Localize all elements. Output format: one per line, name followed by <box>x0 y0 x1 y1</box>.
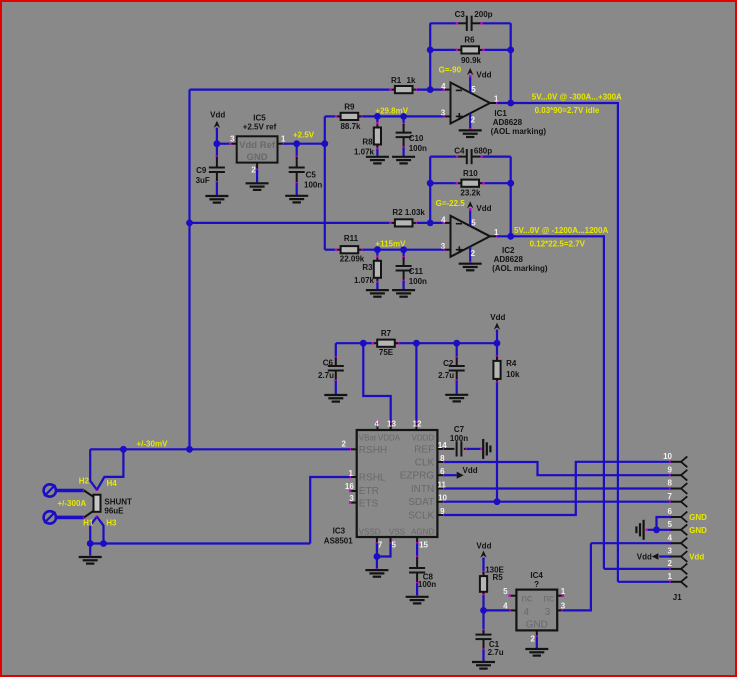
svg-text:5: 5 <box>471 218 476 227</box>
wire J1 pin5 to ground <box>647 529 671 531</box>
svg-text:ETR: ETR <box>359 486 379 497</box>
junction IC1 output <box>507 100 514 107</box>
svg-text:C2: C2 <box>443 359 454 368</box>
wire sense H3 <box>97 517 104 544</box>
ground C9 <box>205 195 228 197</box>
capacitor C6 <box>335 356 337 358</box>
junction VSSD VSS <box>374 553 381 560</box>
ground IC5 <box>246 182 269 184</box>
capacitor C4 <box>457 156 467 158</box>
junction inverting input IC1 <box>427 86 434 93</box>
svg-text:C5: C5 <box>306 171 317 180</box>
junction H4 riser <box>120 446 127 453</box>
junction H1 riser <box>87 540 94 547</box>
op-amp IC1 <box>451 83 491 124</box>
screw terminal H1 <box>44 511 56 523</box>
pin 9 IC3 SCLK <box>437 514 444 516</box>
wire junction to C1 <box>482 610 484 630</box>
ground J1 sideways <box>642 520 644 540</box>
pin 15 IC3 AGND <box>416 537 418 543</box>
junction inverting input IC2 <box>427 220 434 227</box>
junction C5 top <box>293 140 300 147</box>
pin 2 IC4 <box>536 630 538 636</box>
svg-text:SDAT: SDAT <box>408 497 434 508</box>
resistor R5 <box>482 571 484 573</box>
svg-text:IC4: IC4 <box>530 571 543 580</box>
svg-text:5: 5 <box>668 520 673 529</box>
resistor R1 <box>390 89 395 91</box>
svg-text:IC2: IC2 <box>502 246 515 255</box>
resistor R7 <box>363 342 372 344</box>
current sensor IC3 <box>357 430 438 537</box>
svg-text:H2: H2 <box>79 477 90 486</box>
wire sense H2 <box>90 449 97 490</box>
svg-text:C10: C10 <box>409 134 424 143</box>
wire C6 drop <box>335 343 337 357</box>
junction C11 top <box>400 246 407 253</box>
pin 4 IC3 VBat <box>377 422 379 430</box>
svg-text:680p: 680p <box>474 146 492 155</box>
junction Vdd R4 <box>494 340 501 347</box>
svg-text:75E: 75E <box>379 348 394 357</box>
pin 2 IC5 <box>256 163 258 170</box>
svg-text:C11: C11 <box>409 267 424 276</box>
svg-text:R8: R8 <box>362 137 373 146</box>
svg-text:Vdd: Vdd <box>476 204 491 213</box>
svg-text:13: 13 <box>387 420 396 429</box>
svg-text:RSHH: RSHH <box>359 445 387 456</box>
wire C3 row left <box>430 22 457 24</box>
svg-text:0.03*90=2.7V idle: 0.03*90=2.7V idle <box>535 106 600 115</box>
power Vdd J1 pin3 <box>659 555 670 557</box>
junction R6 right <box>507 47 514 54</box>
wire VSS to VSSD <box>377 544 391 557</box>
junction IC2 output <box>507 233 514 240</box>
svg-text:1: 1 <box>281 135 286 144</box>
pin 4 IC1 <box>444 89 451 91</box>
svg-text:200p: 200p <box>474 10 492 19</box>
pin 16 IC3 ETR <box>350 490 357 492</box>
svg-text:1.07k: 1.07k <box>354 147 375 156</box>
pin 5 IC1 <box>469 76 471 93</box>
pin 4 IC4 <box>510 609 517 611</box>
svg-text:90.9k: 90.9k <box>461 56 482 65</box>
svg-text:96uE: 96uE <box>104 507 124 516</box>
junction C10 top <box>400 113 407 120</box>
svg-text:EZPRG: EZPRG <box>400 471 435 482</box>
pin 7 J1 <box>669 501 671 503</box>
svg-text:C4: C4 <box>454 146 465 155</box>
junction R3 top <box>374 246 381 253</box>
svg-text:10k: 10k <box>506 370 520 379</box>
wire shunt low side <box>90 542 310 544</box>
wire shunt signal vertical <box>188 90 190 450</box>
pin 6 J1 <box>669 516 671 518</box>
wire R11 row left <box>325 249 336 251</box>
ground R8 <box>366 156 389 158</box>
svg-text:R2 1.03k: R2 1.03k <box>392 208 425 217</box>
wire R9 row left <box>325 115 336 117</box>
svg-text:3: 3 <box>545 607 551 618</box>
wire R4 to SDAT <box>496 383 498 502</box>
svg-text:AD8628: AD8628 <box>493 118 523 127</box>
svg-text:3: 3 <box>230 135 235 144</box>
svg-text:100n: 100n <box>409 144 427 153</box>
svg-text:AS8501: AS8501 <box>324 537 353 546</box>
svg-text:5: 5 <box>392 541 397 550</box>
capacitor C9 <box>216 144 218 157</box>
svg-text:VSS: VSS <box>389 527 405 536</box>
svg-text:+29.8mV: +29.8mV <box>375 106 408 115</box>
wire R6 row left <box>430 49 457 51</box>
junction Vdd C9 node <box>214 140 221 147</box>
svg-text:23.2k: 23.2k <box>460 189 481 198</box>
power Vdd IC1 <box>467 68 473 75</box>
svg-text:3uF: 3uF <box>196 176 210 185</box>
wire IC2 output to J1 pin2 <box>603 235 605 569</box>
svg-text:10: 10 <box>663 452 672 461</box>
ground C11 <box>392 289 415 291</box>
ground C2 <box>445 394 468 396</box>
wire R2 input row <box>190 222 391 224</box>
svg-text:VDDA: VDDA <box>378 433 401 442</box>
svg-text:VBat: VBat <box>359 433 377 442</box>
svg-text:SHUNT: SHUNT <box>104 497 132 506</box>
capacitor C7 <box>444 448 454 450</box>
svg-text:C7: C7 <box>454 425 465 434</box>
svg-text:G=-22.5: G=-22.5 <box>436 199 466 208</box>
wire C3 row right <box>482 22 511 24</box>
wire IC4 pin3 to J1 pin4 <box>563 543 591 610</box>
svg-text:+/-300A: +/-300A <box>58 499 87 508</box>
pin 3 J1 <box>669 555 671 557</box>
svg-text:AD8628: AD8628 <box>494 255 524 264</box>
svg-text:+/-30mV: +/-30mV <box>137 440 169 449</box>
pin 3 IC5 <box>230 143 236 145</box>
svg-text:Vdd: Vdd <box>210 111 225 120</box>
wire C4 row right <box>482 156 511 158</box>
wire R6 row right <box>483 49 510 51</box>
svg-text:R9: R9 <box>344 103 355 112</box>
svg-text:16: 16 <box>345 482 354 491</box>
wire RSHL riser <box>310 477 350 544</box>
shunt resistor <box>84 491 94 498</box>
wire R10 row left <box>430 182 457 184</box>
svg-text:VDDD: VDDD <box>412 433 435 442</box>
svg-text:R4: R4 <box>506 359 517 368</box>
junction shunt signal <box>186 446 193 453</box>
svg-text:7: 7 <box>378 541 383 550</box>
svg-text:+2.5V ref: +2.5V ref <box>243 122 277 131</box>
wire CLK to J1 pin9 <box>444 462 669 475</box>
svg-text:2.7u: 2.7u <box>438 371 454 380</box>
ground C1 <box>472 661 495 663</box>
reset generator IC4 <box>516 590 557 631</box>
svg-text:Vdd Ref: Vdd Ref <box>239 140 276 151</box>
junction R6 left <box>427 47 434 54</box>
svg-text:J1: J1 <box>673 593 682 602</box>
wire VSSD to ground <box>376 544 378 570</box>
svg-text:GND: GND <box>247 152 268 163</box>
pin 10 J1 <box>669 461 671 463</box>
power Vdd EZPRG <box>444 474 457 476</box>
pin 3 IC3 ETS <box>350 502 357 504</box>
pin 3 IC4 <box>557 609 563 611</box>
ground C7 sideways <box>482 439 484 459</box>
pin 7 IC3 VSSD <box>376 537 378 544</box>
screw terminal H2 <box>44 484 56 496</box>
svg-text:CLK: CLK <box>415 458 435 469</box>
junction R7 right <box>413 340 420 347</box>
svg-text:1: 1 <box>668 572 673 581</box>
capacitor C3 <box>457 22 467 24</box>
wire SCLK to J1 pin10 <box>444 462 669 515</box>
svg-text:nc: nc <box>522 593 533 604</box>
wire IC4 pin2 to ground <box>536 637 538 649</box>
wire IC5 pin2 to ground <box>256 170 258 183</box>
capacitor C8 <box>416 543 418 557</box>
junction C2 top <box>453 340 460 347</box>
ground IC1 <box>459 129 482 131</box>
wire R7 row <box>336 342 364 344</box>
svg-text:5: 5 <box>471 85 476 94</box>
svg-text:(AOL marking): (AOL marking) <box>491 127 547 136</box>
svg-text:R7: R7 <box>381 329 392 338</box>
pin 3 IC1 <box>444 115 451 117</box>
wire sense H4 <box>97 449 124 490</box>
ground R3 <box>366 289 389 291</box>
pin 1 IC1 output <box>490 102 497 104</box>
svg-text:100n: 100n <box>418 580 436 589</box>
pin 9 J1 <box>669 474 671 476</box>
wire IC2 output <box>497 235 604 237</box>
svg-text:R10: R10 <box>463 169 478 178</box>
svg-text:2.7u: 2.7u <box>488 648 504 657</box>
svg-text:GND: GND <box>526 620 548 631</box>
ground C8 <box>406 596 429 598</box>
pin 4 IC2 <box>444 222 451 224</box>
svg-text:Vdd: Vdd <box>490 313 505 322</box>
pin 5 J1 <box>669 529 671 531</box>
junction SDAT pullup <box>494 498 501 505</box>
svg-text:INTN: INTN <box>411 484 434 495</box>
wire C4 row left <box>430 156 457 158</box>
capacitor C5 <box>296 144 298 157</box>
junction R8 top <box>374 113 381 120</box>
wire shunt low to ground <box>89 544 91 557</box>
svg-text:R1: R1 <box>391 76 402 85</box>
svg-text:SCLK: SCLK <box>408 510 434 521</box>
svg-text:4: 4 <box>524 607 530 618</box>
pin 8 IC3 CLK <box>437 461 444 463</box>
svg-text:G=-90: G=-90 <box>439 66 462 75</box>
ground C5 <box>285 195 308 197</box>
wire feedback right vertical stage2 <box>510 157 512 237</box>
wire feedback left vertical stage2 <box>429 157 431 223</box>
svg-text:IC3: IC3 <box>333 527 346 536</box>
wire J1 pin6 gnd link <box>657 517 671 530</box>
voltage reference IC5 <box>237 136 278 162</box>
svg-text:100n: 100n <box>304 180 322 189</box>
pin 1 IC4 <box>557 595 563 597</box>
pin 10 IC3 SDAT <box>437 501 444 503</box>
pin 5 IC4 <box>510 595 517 597</box>
wire INTN to J1 pin8 <box>444 487 669 489</box>
pin 2 J1 <box>669 568 671 570</box>
svg-text:2: 2 <box>251 165 256 174</box>
ground C6 <box>324 394 347 396</box>
wire IC5 pin1 to +2.5V node <box>284 143 325 145</box>
svg-text:4: 4 <box>503 602 508 611</box>
svg-text:2.7u: 2.7u <box>318 371 334 380</box>
svg-text:1: 1 <box>561 587 566 596</box>
wire R5 to IC4 pin4 <box>482 595 484 610</box>
svg-text:Vdd: Vdd <box>476 71 491 80</box>
svg-text:100n: 100n <box>409 277 427 286</box>
wire J1 pin4 to IC4 <box>591 542 671 544</box>
resistor R11 <box>336 249 341 251</box>
svg-text:Vdd: Vdd <box>637 553 652 562</box>
pin 6 IC3 EZPRG <box>437 474 444 476</box>
svg-text:IC5: IC5 <box>253 113 266 122</box>
svg-text:AGND: AGND <box>411 527 434 536</box>
wire +/-30mV to RSHH <box>90 448 350 450</box>
ground IC4 <box>525 648 548 650</box>
svg-text:nc: nc <box>543 593 554 604</box>
resistor R10 <box>457 182 462 184</box>
svg-text:REF: REF <box>414 444 434 455</box>
pin 8 J1 <box>669 487 671 489</box>
svg-text:8: 8 <box>668 479 673 488</box>
wire R9 to pin3 IC1 <box>363 115 444 117</box>
svg-text:0.12*22.5=2.7V: 0.12*22.5=2.7V <box>530 240 586 249</box>
op-amp IC2 <box>451 216 491 257</box>
svg-text:9: 9 <box>668 465 673 474</box>
svg-text:?: ? <box>534 580 539 589</box>
svg-text:H1: H1 <box>83 519 94 528</box>
ground IC3 VSS <box>365 569 388 571</box>
junction +2.5V <box>321 140 328 147</box>
pin 5 IC2 <box>469 209 471 226</box>
svg-text:1k: 1k <box>407 76 416 85</box>
svg-text:6: 6 <box>668 507 673 516</box>
svg-text:IC1: IC1 <box>494 109 507 118</box>
svg-text:100n: 100n <box>450 434 468 443</box>
ground shunt <box>79 556 102 558</box>
svg-text:3: 3 <box>349 494 354 503</box>
capacitor C2 <box>456 343 458 357</box>
resistor R8 <box>376 116 378 123</box>
svg-text:Vdd: Vdd <box>476 542 491 551</box>
svg-text:1.07k: 1.07k <box>354 276 375 285</box>
wire feedback left vertical stage1 <box>429 23 431 89</box>
svg-text:Vdd: Vdd <box>689 553 704 562</box>
resistor R6 <box>457 49 462 51</box>
svg-text:4: 4 <box>441 82 446 91</box>
pin 4 J1 <box>669 542 671 544</box>
pin 14 IC3 REF <box>437 448 444 450</box>
resistor R2 <box>390 222 395 224</box>
resistor R3 <box>376 250 378 257</box>
svg-text:C6: C6 <box>323 359 334 368</box>
svg-text:R6: R6 <box>464 36 475 45</box>
ground C10 <box>392 156 415 158</box>
svg-text:C9: C9 <box>196 166 207 175</box>
svg-text:5: 5 <box>503 587 508 596</box>
capacitor C10 <box>403 116 405 124</box>
wire R11 to pin3 IC2 <box>363 249 444 251</box>
junction R10 right <box>507 180 514 187</box>
ground IC2 <box>459 263 482 265</box>
pin 1 IC2 output <box>490 235 497 237</box>
wire feedback right vertical stage1 <box>510 23 512 103</box>
svg-text:5V...0V @ -300A...+300A: 5V...0V @ -300A...+300A <box>532 93 622 102</box>
svg-text:2: 2 <box>342 439 347 448</box>
svg-text:2: 2 <box>531 635 536 644</box>
wire IC1 output <box>497 102 618 104</box>
svg-text:GND: GND <box>689 526 707 535</box>
power Vdd IC2 <box>467 201 473 208</box>
svg-text:GND: GND <box>689 513 707 522</box>
svg-text:88.7k: 88.7k <box>340 122 361 131</box>
capacitor C1 <box>482 629 484 631</box>
svg-text:4: 4 <box>441 215 446 224</box>
svg-text:22.09k: 22.09k <box>340 255 365 264</box>
svg-text:3: 3 <box>561 602 566 611</box>
wire node to IC5 pin3 <box>217 143 230 145</box>
wire R2 to opamp <box>417 222 444 224</box>
wire +2.5V vertical to R9 and R11 <box>324 116 326 249</box>
wire SDAT to J1 pin7 <box>444 501 669 503</box>
svg-text:VSSD: VSSD <box>359 527 381 536</box>
svg-text:12: 12 <box>413 420 422 429</box>
svg-text:7: 7 <box>668 492 673 501</box>
capacitor C11 <box>403 250 405 258</box>
resistor R4 <box>496 343 498 356</box>
svg-text:2: 2 <box>471 116 476 125</box>
svg-text:R5: R5 <box>493 573 504 582</box>
svg-text:C3: C3 <box>455 10 466 19</box>
pin 1 J1 <box>669 581 671 583</box>
junction R2 row tee <box>186 220 193 227</box>
wire R10 row right <box>483 182 510 184</box>
svg-text:5V...0V @ -1200A...1200A: 5V...0V @ -1200A...1200A <box>514 226 608 235</box>
junction J1 gnd <box>653 526 660 533</box>
junction R5 C1 <box>480 607 487 614</box>
pin 13 IC3 VDDA <box>390 422 392 424</box>
svg-text:+2.5V: +2.5V <box>293 131 315 140</box>
svg-text:4: 4 <box>375 420 380 429</box>
junction R10 left <box>427 180 434 187</box>
pin 5 IC3 VSS <box>390 537 392 544</box>
pin 12 IC3 VDDD <box>415 422 417 424</box>
svg-text:RSHL: RSHL <box>359 472 386 483</box>
svg-text:2: 2 <box>668 559 673 568</box>
pin 11 IC3 INTN <box>437 488 444 490</box>
svg-text:H3: H3 <box>106 519 117 528</box>
pin 2 IC3 RSHH <box>350 448 357 450</box>
svg-text:R3: R3 <box>362 263 373 272</box>
wire IC1 output to J1 pin1 <box>617 102 619 582</box>
junction H3 riser <box>100 540 107 547</box>
junction R7 left <box>360 340 367 347</box>
wire VDDD feed <box>415 343 417 423</box>
pin 1 IC5 <box>278 143 284 145</box>
pin 2 IC1 <box>469 114 471 130</box>
svg-text:+115mV: +115mV <box>375 240 406 249</box>
wire VDDA feed <box>363 343 390 423</box>
wire sense H1 <box>90 517 97 544</box>
